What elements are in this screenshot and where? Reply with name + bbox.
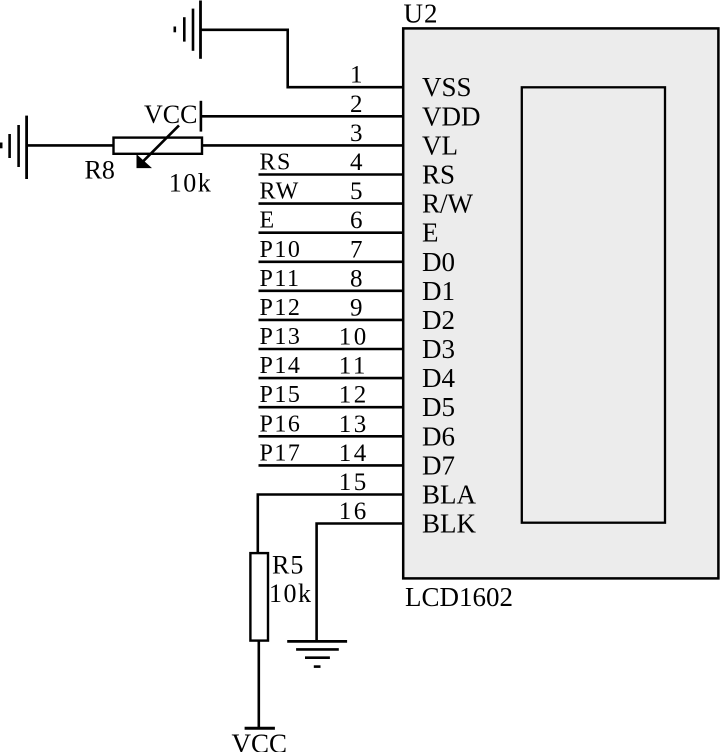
svg-text:R5: R5 <box>272 551 304 580</box>
svg-text:P13: P13 <box>260 324 302 350</box>
svg-text:BLA: BLA <box>422 480 477 510</box>
svg-text:RW: RW <box>260 179 300 205</box>
ground left <box>1 116 26 179</box>
wire pin7 P10 <box>259 260 404 263</box>
IC U2 LCD1602 body <box>403 28 718 578</box>
svg-text:E: E <box>422 218 439 248</box>
wire VCC to pin2 <box>201 101 404 132</box>
wire pin4 RS <box>259 173 404 176</box>
svg-text:D2: D2 <box>422 305 455 335</box>
svg-text:VCC: VCC <box>144 100 197 129</box>
wire pin16 to ground <box>317 524 404 641</box>
svg-text:P10: P10 <box>260 237 302 263</box>
svg-text:P14: P14 <box>260 353 302 379</box>
svg-text:13: 13 <box>339 411 369 438</box>
wire pin11 P14 <box>259 377 404 380</box>
svg-text:BLK: BLK <box>422 509 477 539</box>
VCC terminal bar <box>245 727 275 730</box>
svg-text:D3: D3 <box>422 334 455 364</box>
ground top-left <box>175 1 201 59</box>
svg-text:9: 9 <box>350 294 363 321</box>
svg-text:RS: RS <box>422 160 455 190</box>
svg-text:D1: D1 <box>422 276 455 306</box>
svg-text:14: 14 <box>339 440 369 467</box>
svg-text:D0: D0 <box>422 247 455 277</box>
svg-text:3: 3 <box>350 120 363 147</box>
svg-text:7: 7 <box>350 236 363 263</box>
svg-text:P11: P11 <box>260 266 301 292</box>
svg-text:16: 16 <box>339 498 369 525</box>
wire pin6 E <box>259 231 404 234</box>
svg-text:D7: D7 <box>422 450 455 480</box>
wire ground to pin1 <box>201 30 404 87</box>
svg-text:P15: P15 <box>260 382 302 408</box>
wire pin14 P17 <box>259 464 404 467</box>
svg-text:D4: D4 <box>422 363 455 393</box>
ground bottom <box>287 641 347 666</box>
svg-text:6: 6 <box>350 207 363 234</box>
svg-text:D5: D5 <box>422 392 455 422</box>
svg-text:10k: 10k <box>269 579 313 608</box>
svg-text:E: E <box>260 208 276 234</box>
wire pin13 P16 <box>259 435 404 438</box>
wire pin15 to R5 <box>258 495 404 554</box>
svg-text:VCC: VCC <box>232 728 288 752</box>
svg-text:LCD1602: LCD1602 <box>405 582 513 612</box>
svg-text:U2: U2 <box>404 0 439 28</box>
svg-text:VL: VL <box>422 130 458 160</box>
resistor R5 <box>250 553 268 641</box>
svg-text:10k: 10k <box>169 169 213 198</box>
svg-text:2: 2 <box>350 91 363 118</box>
svg-text:P17: P17 <box>260 440 302 466</box>
svg-text:R/W: R/W <box>422 189 474 219</box>
svg-text:15: 15 <box>339 469 369 496</box>
wire R5 to VCC <box>257 641 260 728</box>
svg-text:P12: P12 <box>260 295 302 321</box>
wire R8 to pin3 <box>202 144 404 147</box>
svg-text:RS: RS <box>260 150 292 176</box>
wire pin10 P13 <box>259 348 404 351</box>
potentiometer R8 <box>114 125 203 167</box>
wire pin8 P11 <box>259 289 404 292</box>
svg-text:12: 12 <box>339 382 369 409</box>
svg-text:P16: P16 <box>260 411 302 437</box>
svg-text:11: 11 <box>339 353 368 380</box>
svg-text:VDD: VDD <box>422 101 481 131</box>
svg-text:1: 1 <box>350 62 363 89</box>
wire pin5 RW <box>259 202 404 205</box>
wire pin9 P12 <box>259 319 404 322</box>
svg-text:5: 5 <box>350 178 363 205</box>
svg-text:10: 10 <box>339 324 369 351</box>
svg-text:VSS: VSS <box>422 72 472 102</box>
svg-text:4: 4 <box>350 149 363 176</box>
wire left ground to R8 <box>27 144 114 147</box>
svg-text:R8: R8 <box>85 156 115 185</box>
svg-text:8: 8 <box>350 265 363 292</box>
wire pin12 P15 <box>259 406 404 409</box>
svg-text:D6: D6 <box>422 421 455 451</box>
